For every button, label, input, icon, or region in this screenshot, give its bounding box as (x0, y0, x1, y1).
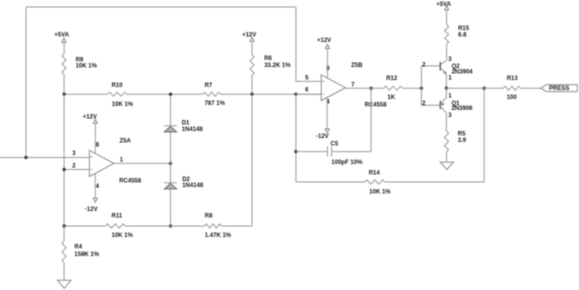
svg-text:+12V: +12V (242, 32, 256, 38)
wire main mid horizontal (64, 93, 107, 95)
resistor R13 (503, 76, 520, 101)
wire (222, 225, 253, 227)
wire pin5 from feedback (296, 7, 321, 81)
svg-text:R12: R12 (386, 76, 398, 82)
svg-text:R10: R10 (112, 83, 124, 89)
node bottom left junction (62, 224, 65, 227)
transistor Q2 (422, 57, 473, 88)
svg-text:10K 1%: 10K 1% (76, 63, 98, 69)
svg-text:R8: R8 (205, 214, 213, 220)
resistor R6 (250, 41, 291, 94)
wire R13 to flag (520, 87, 541, 89)
svg-text:PRESS: PRESS (549, 86, 569, 92)
svg-text:R11: R11 (112, 214, 123, 220)
svg-text:Z5B: Z5B (351, 63, 363, 69)
svg-text:10K 1%: 10K 1% (112, 102, 134, 108)
wire pin4 Z5B (326, 98, 328, 129)
wire pin6 Z5B (296, 93, 321, 95)
wire left feedback vertical (25, 7, 27, 158)
wire diode branch vertical (170, 94, 172, 226)
node R6 junction (250, 93, 253, 96)
wire Z5A output (114, 162, 171, 164)
wire R11 R8 bottom horizontal (64, 225, 105, 227)
svg-text:1N4148: 1N4148 (182, 183, 204, 189)
svg-text:RC4558: RC4558 (365, 102, 388, 108)
wire R6 vertical down (251, 94, 253, 226)
svg-text:2N3906: 2N3906 (452, 106, 474, 112)
resistor R11 (106, 214, 134, 240)
wire pin8 Z5B (327, 49, 329, 78)
capacitor C5 (296, 141, 371, 166)
svg-text:+5VA: +5VA (436, 2, 451, 8)
resistor R15 (445, 10, 470, 60)
svg-text:-12V: -12V (316, 134, 329, 140)
resistor R10 (108, 83, 134, 108)
svg-text:-12V: -12V (85, 207, 98, 213)
+12V power Z5A (83, 114, 98, 123)
wire (127, 93, 203, 95)
svg-text:RC4558: RC4558 (119, 178, 142, 184)
wire emitters to R13 (446, 87, 503, 89)
node base branch junction (420, 87, 423, 90)
resistor R9 (62, 42, 98, 94)
transistor Q1 (422, 88, 473, 119)
svg-text:R4: R4 (74, 245, 82, 251)
svg-text:100: 100 (507, 95, 518, 101)
wire R14 bottom horizontal (296, 181, 365, 183)
svg-text:Z5A: Z5A (120, 138, 132, 144)
node emitters junction (445, 87, 448, 90)
svg-text:2N3904: 2N3904 (452, 69, 474, 75)
resistor R14 (365, 171, 392, 196)
+12V power R6 (242, 32, 256, 41)
node C5 branch junction (294, 150, 297, 153)
wire (125, 225, 204, 227)
svg-text:+12V: +12V (317, 38, 331, 44)
svg-text:6.8: 6.8 (458, 32, 467, 38)
resistor R8 (205, 214, 232, 240)
svg-text:R6: R6 (264, 56, 272, 62)
node pin2 junction (62, 168, 65, 171)
svg-text:787 1%: 787 1% (205, 101, 226, 107)
svg-text:1K: 1K (387, 95, 395, 101)
wire top feedback horizontal (26, 6, 296, 8)
svg-text:D2: D2 (182, 177, 190, 183)
wire Z5B output (346, 87, 384, 89)
svg-text:R7: R7 (205, 83, 213, 89)
svg-text:C5: C5 (331, 141, 339, 147)
svg-text:1.47K 1%: 1.47K 1% (205, 233, 232, 239)
svg-text:10K 1%: 10K 1% (369, 190, 391, 196)
svg-text:R14: R14 (369, 171, 381, 177)
node input junction (24, 156, 27, 159)
diode D2 (164, 177, 204, 189)
wire pin4 Z5A (94, 173, 96, 198)
ground right (440, 162, 453, 169)
wire left vertical down (63, 94, 65, 226)
svg-text:1N4148: 1N4148 (182, 127, 204, 133)
wire pin2 Z5A (64, 169, 89, 171)
svg-text:R15: R15 (458, 26, 470, 32)
svg-text:100pF 10%: 100pF 10% (331, 160, 363, 166)
svg-text:R5: R5 (458, 132, 466, 138)
wire input to pin3 Z5A (0, 157, 89, 159)
net flag PRESS (541, 85, 577, 93)
svg-text:R13: R13 (507, 76, 519, 82)
resistor R7 (203, 83, 226, 107)
-12V power Z5A (85, 198, 98, 213)
+12V power Z5B (317, 38, 331, 49)
svg-text:+5VA: +5VA (54, 33, 69, 39)
+5VA power symbol left (54, 33, 69, 43)
diode D1 (164, 121, 203, 133)
node diode top junction (169, 93, 172, 96)
op-amp Z5A (72, 138, 142, 190)
wire R14 to right riser (385, 88, 484, 182)
node diode bottom junction (169, 224, 172, 227)
node C5 output junction (369, 87, 372, 90)
-12V power Z5B (316, 129, 329, 140)
+5VA power right (436, 2, 451, 10)
wire R12 to bases (403, 87, 422, 89)
wire base branch (421, 66, 440, 105)
ground left (57, 280, 71, 288)
svg-text:33.2K 1%: 33.2K 1% (264, 63, 291, 69)
node emitter-R13 junction (483, 87, 486, 90)
resistor R4 (62, 226, 100, 280)
svg-text:10K 1%: 10K 1% (112, 233, 134, 239)
node R9 junction (62, 93, 65, 96)
node feedback mid junction (294, 93, 297, 96)
node Z5A output junction (169, 162, 172, 165)
resistor R12 (384, 76, 403, 101)
op-amp Z5B (305, 63, 387, 108)
resistor R5 (444, 113, 466, 162)
svg-text:158K 1%: 158K 1% (74, 252, 99, 258)
wire (221, 93, 322, 95)
svg-text:D1: D1 (182, 121, 190, 127)
wire feedback down vertical (295, 94, 297, 182)
svg-text:3.9: 3.9 (458, 138, 467, 144)
wire C5 up to output (370, 88, 372, 151)
wire pin8 Z5A (94, 123, 96, 152)
